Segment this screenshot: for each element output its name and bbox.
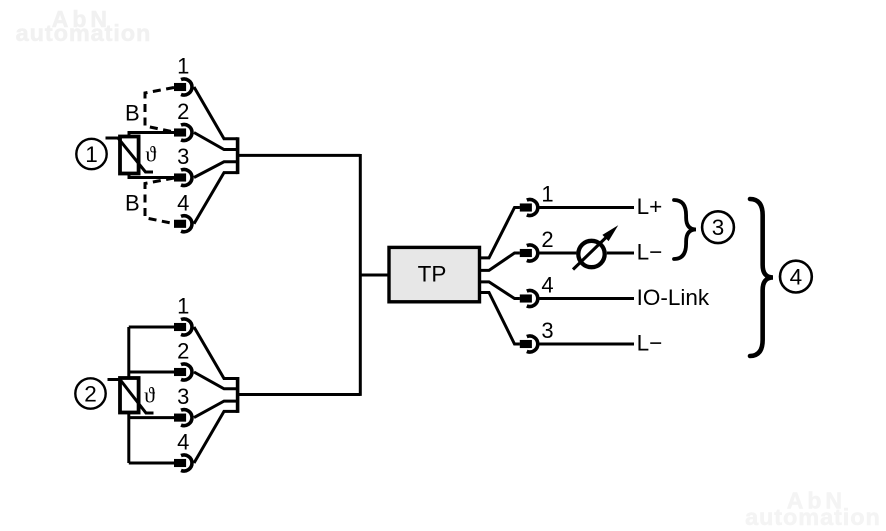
- wire sensor2 bus to pin 2: [129, 371, 174, 374]
- connector pin 1 (sensor 1): [174, 79, 192, 95]
- svg-text:1: 1: [85, 142, 98, 167]
- svg-text:2: 2: [541, 227, 553, 252]
- svg-text:3: 3: [177, 144, 189, 169]
- wire sensor2 bus to pin 1: [129, 326, 174, 329]
- node 4 (circled callout): [780, 261, 812, 293]
- svg-text:1: 1: [177, 294, 189, 319]
- watermark bottom-right: [745, 487, 881, 530]
- svg-text:3: 3: [712, 215, 725, 240]
- svg-text:2: 2: [177, 99, 189, 124]
- wire sensor2 pin 4 to junction X2: [194, 411, 238, 463]
- connector pin 3 (sensor 2): [174, 410, 192, 426]
- meter M1 (indicator): [573, 225, 618, 269]
- connector pin 4 (sensor 1): [174, 216, 192, 232]
- svg-text:IO-Link: IO-Link: [637, 285, 710, 310]
- svg-text:automation: automation: [16, 20, 152, 46]
- wire TP to output pin 3: [480, 293, 520, 345]
- brace group 4 (all outputs): [750, 199, 773, 356]
- svg-text:1: 1: [177, 54, 189, 79]
- connector pin 4 (sensor 2): [174, 455, 192, 471]
- svg-text:4: 4: [177, 190, 189, 215]
- svg-text:4: 4: [790, 265, 803, 290]
- svg-text:automation: automation: [745, 504, 881, 530]
- wire sensor2 left bus bottom (RT2 to pins 3-4): [127, 413, 130, 464]
- connector pin 4 (output): [520, 291, 538, 307]
- wire RT1 bottom to pin 3: [129, 174, 174, 178]
- svg-text:B: B: [125, 190, 140, 215]
- svg-text:ϑ: ϑ: [145, 142, 156, 167]
- wire sensor2 pin 1 to junction X2: [194, 327, 238, 379]
- connector pin 2 (sensor 2): [174, 364, 192, 380]
- wire trunk to TP: [360, 274, 389, 277]
- wire sensor1 pin 2 to junction X1: [194, 133, 238, 150]
- wire sensor2 bus to pin 4: [129, 462, 174, 465]
- connector pin 3 (output): [520, 336, 538, 352]
- connector pin 2 (sensor 1): [174, 125, 192, 141]
- wire sensor1 pin 1 to junction X1: [194, 87, 238, 139]
- wire sensor1 pin 3 to junction X1: [194, 162, 238, 178]
- thermistor RT2: [108, 378, 156, 413]
- TP box U1: [389, 247, 480, 301]
- wire TP to output pin 1: [480, 208, 520, 258]
- svg-text:2: 2: [177, 339, 189, 364]
- connector pin 1 (sensor 2): [174, 319, 192, 335]
- wire pin 2 to meter: [539, 252, 576, 255]
- wire X2 to trunk: [238, 393, 361, 396]
- bridge B pins 3-4 (dashed wire): [145, 178, 174, 224]
- svg-text:3: 3: [177, 384, 189, 409]
- svg-text:L+: L+: [637, 194, 663, 219]
- wire sensor2 pin 2 to junction X2: [194, 372, 238, 389]
- svg-text:L−: L−: [637, 239, 663, 264]
- trunk wire (vertical bus): [359, 154, 362, 396]
- wire TP to output pin 4: [480, 282, 520, 299]
- connector pin 1 (output): [520, 200, 538, 216]
- svg-text:L−: L−: [637, 330, 663, 355]
- wire sensor2 pin 3 to junction X2: [194, 401, 238, 418]
- wire pin 4 to IO-Link: [539, 297, 634, 300]
- svg-text:3: 3: [541, 318, 553, 343]
- svg-text:4: 4: [177, 430, 189, 455]
- svg-text:ϑ: ϑ: [144, 383, 155, 408]
- svg-text:TP: TP: [418, 262, 447, 287]
- node 3 (circled callout): [702, 211, 734, 243]
- wire X1 to trunk: [238, 154, 361, 157]
- wire RT1 top to pin 2: [129, 133, 174, 137]
- wire meter to L-: [607, 252, 634, 255]
- wire sensor2 left bus top (pins 1-2 to RT2): [127, 327, 130, 378]
- thermistor RT1: [106, 137, 157, 174]
- svg-text:B: B: [125, 100, 140, 125]
- brace group 3 (L+ / L-): [674, 200, 696, 259]
- wire pin 1 to L+: [539, 206, 634, 209]
- cable junction X2: [236, 377, 240, 413]
- connector pin 3 (sensor 1): [174, 170, 192, 186]
- wire TP to output pin 2: [480, 253, 520, 270]
- svg-text:2: 2: [84, 381, 97, 406]
- wire sensor2 bus to pin 3: [129, 416, 174, 419]
- connector pin 2 (output): [520, 245, 538, 261]
- svg-text:4: 4: [541, 273, 553, 298]
- bridge B pins 1-2 (dashed wire): [145, 88, 174, 133]
- wire pin 3 to L-: [539, 343, 634, 346]
- node 1 (circled sensor 1 callout): [76, 139, 106, 169]
- node 2 (circled sensor 2 callout): [75, 378, 105, 408]
- watermark top-left: [16, 6, 152, 46]
- svg-text:1: 1: [541, 182, 553, 207]
- cable junction X1: [236, 137, 240, 174]
- wire sensor1 pin 4 to junction X1: [194, 173, 238, 224]
